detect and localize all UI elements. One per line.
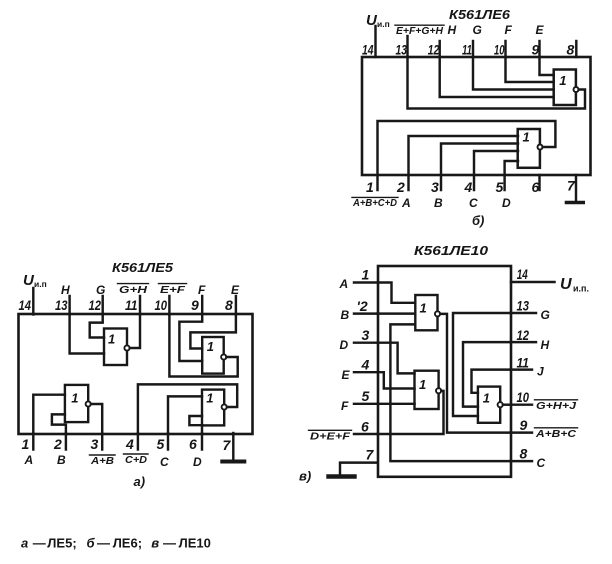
wire B: pin 3 to gate U1.2 input 2 xyxy=(441,144,518,191)
wire gate U3.3 output to pin 10 xyxy=(503,403,511,405)
label title K561LE5 xyxy=(112,261,174,275)
svg-text:3: 3 xyxy=(362,327,370,343)
net label F (pin 10, diagram b) xyxy=(505,23,513,37)
label v) subfigure xyxy=(299,469,311,484)
svg-text:U: U xyxy=(560,276,572,293)
svg-text:1: 1 xyxy=(108,332,115,347)
svg-text:3: 3 xyxy=(431,179,439,195)
pin 9 stub (diagram b) xyxy=(532,41,540,58)
svg-text:A: A xyxy=(401,196,411,210)
svg-text:11: 11 xyxy=(462,42,472,58)
svg-text:D: D xyxy=(193,455,202,469)
wire A: pin 2 to gate U1.2 input 1 xyxy=(409,136,519,190)
gate U1.2 4-input NOR (diagram b, bottom) xyxy=(518,129,543,168)
pin 6 number xyxy=(532,179,540,195)
wire H: pin 12 to gate U3.3 input 2 xyxy=(463,342,511,407)
svg-text:1: 1 xyxy=(207,339,214,354)
pin 13 stub (diagram v) xyxy=(511,298,537,314)
label a) subfigure xyxy=(134,474,146,489)
svg-text:и.п.: и.п. xyxy=(573,284,589,294)
wire C: pin 8 across to gate U3.1 input 3 xyxy=(390,324,510,461)
pin 9 stub (diagram a) xyxy=(191,296,202,315)
net label A (pin 2, diagram b) xyxy=(401,196,411,210)
svg-text:б: б xyxy=(87,536,96,551)
net label C (pin 4, diagram b) xyxy=(469,196,478,210)
net label A+B (pin 3 output, diagram a) xyxy=(90,455,116,467)
pin 6 stub (diagram a) xyxy=(189,433,202,452)
wire A: pin 1 jog to gate U3.1 input 1 xyxy=(378,283,415,303)
IC body DD3 (K561LE10) xyxy=(378,266,511,477)
gate U3.2 3-input NOR (diagram v, middle) xyxy=(415,371,442,409)
pin 5 stub (diagram a) xyxy=(157,433,169,452)
net label A+B+C+D (pin 1 output, diagram b) xyxy=(352,197,398,209)
caption: a - LE5; b - LE6; v - LE10 xyxy=(21,536,211,551)
IC body DD2 (K561LE5) xyxy=(19,314,253,434)
gate U1.1 4-input NOR (diagram b, top) xyxy=(554,70,579,106)
pin 10 stub (diagram b) xyxy=(494,41,506,58)
svg-text:14: 14 xyxy=(362,42,374,58)
net label G (pin 11, diagram b) xyxy=(473,23,482,37)
pin 2 number xyxy=(396,179,405,195)
pin 5 stub (diagram v) xyxy=(354,388,378,404)
label title K561LE10 xyxy=(414,244,488,258)
svg-text:D: D xyxy=(340,338,349,352)
node Vcc label U i.p (diagram b) xyxy=(366,12,390,29)
svg-text:A: A xyxy=(24,453,34,467)
svg-text:B: B xyxy=(341,308,350,322)
svg-text:и.п: и.п xyxy=(34,279,47,289)
net label H (pin 12, diagram v) xyxy=(541,338,550,352)
svg-text:7: 7 xyxy=(567,178,576,194)
wire J: pin 11 to gate U3.3 input 1 xyxy=(472,370,511,393)
pin 11 stub (diagram b) xyxy=(462,41,473,58)
svg-text:7: 7 xyxy=(223,437,232,453)
pin 7 number xyxy=(567,178,576,194)
net label D (pin 3, diagram v) xyxy=(340,338,349,352)
svg-text:G: G xyxy=(96,283,105,297)
gate U2.1 2-input NOR (diagram a, top left) xyxy=(104,329,130,366)
pin 9 stub (diagram v) xyxy=(511,417,533,433)
svg-text:К561ЛЕ6: К561ЛЕ6 xyxy=(449,8,511,22)
pin 3 number xyxy=(431,179,439,195)
svg-text:6: 6 xyxy=(189,436,197,452)
svg-text:'2: '2 xyxy=(357,298,368,314)
wire G: pin 12 jog to gate U2.1 input 1 xyxy=(90,315,104,338)
net label E+F+G+H (pin 13 output, diagram b) xyxy=(395,25,444,37)
wire C: pin 4 to gate U1.2 input 3 xyxy=(474,151,518,190)
svg-text:б): б) xyxy=(472,213,484,228)
svg-text:C: C xyxy=(469,196,478,210)
pin 8 stub (diagram a) xyxy=(225,296,236,315)
svg-text:A+B+C+D: A+B+C+D xyxy=(352,198,397,209)
pin 7 stub (ground, diagram v) xyxy=(340,447,378,475)
svg-text:1: 1 xyxy=(559,73,566,88)
net label C (pin 8, diagram v) xyxy=(537,456,546,470)
svg-text:в: в xyxy=(151,536,159,551)
net label D+E+F (pin 6 output, diagram v) xyxy=(309,430,352,442)
net label D (pin 6, diagram a) xyxy=(193,455,202,469)
pin 7 stub (ground, diagram b) xyxy=(575,175,577,201)
svg-text:G+H+J: G+H+J xyxy=(536,401,577,412)
node Vcc label U i.p (diagram a) xyxy=(23,272,47,289)
wire E: pin 8 jog to gate U2.2 input 1 xyxy=(190,315,236,349)
svg-text:5: 5 xyxy=(157,436,165,452)
wire G: pin 13 to gate U3.3 input 3 xyxy=(453,313,511,416)
svg-text:9: 9 xyxy=(191,297,199,313)
wire gate U3.1 output to pin 9 xyxy=(440,314,510,433)
svg-text:B: B xyxy=(434,196,443,210)
pin 10 stub (diagram v) xyxy=(511,389,533,405)
svg-text:—: — xyxy=(97,536,110,551)
net label G (pin 12, diagram a) xyxy=(96,283,105,297)
svg-text:1: 1 xyxy=(22,436,30,452)
net label B (pin 2, diagram v) xyxy=(341,308,350,322)
svg-text:10: 10 xyxy=(155,297,168,313)
ground symbol (diagram v) xyxy=(329,474,355,478)
pin 13 stub (diagram a) xyxy=(55,296,70,315)
wire F: pin 10 to gate U1.1 input 2 xyxy=(506,57,554,82)
svg-text:9: 9 xyxy=(520,417,528,433)
svg-text:14: 14 xyxy=(19,297,32,313)
svg-text:13: 13 xyxy=(55,297,68,313)
svg-text:A+B: A+B xyxy=(90,456,114,467)
svg-text:G: G xyxy=(541,308,550,322)
svg-text:J: J xyxy=(537,365,544,379)
svg-text:—: — xyxy=(163,536,176,551)
svg-text:5: 5 xyxy=(362,388,370,404)
pin 4 number xyxy=(464,179,473,195)
svg-text:14: 14 xyxy=(517,266,528,282)
svg-text:1: 1 xyxy=(206,391,213,406)
pin 14 stub (Vcc, diagram v) xyxy=(511,266,555,282)
svg-text:8: 8 xyxy=(520,446,528,462)
label title K561LE6 xyxy=(449,8,511,22)
svg-text:H: H xyxy=(541,338,550,352)
svg-text:К561ЛЕ5: К561ЛЕ5 xyxy=(112,261,174,275)
svg-text:E+F: E+F xyxy=(160,285,186,296)
svg-text:G: G xyxy=(473,23,482,37)
svg-text:10: 10 xyxy=(517,389,530,405)
gate U2.3 2-input NOR (diagram a, bottom left) xyxy=(65,385,91,422)
pin 11 stub (diagram v) xyxy=(511,355,533,371)
pin 7 stub (ground, diagram a) xyxy=(223,433,234,460)
svg-text:E+F+G+H: E+F+G+H xyxy=(396,26,444,37)
net label C+D (pin 4 output, diagram a) xyxy=(124,454,149,466)
svg-text:8: 8 xyxy=(225,297,233,313)
svg-text:H: H xyxy=(448,23,457,37)
svg-text:1: 1 xyxy=(420,301,427,316)
svg-text:C: C xyxy=(537,456,546,470)
svg-text:в): в) xyxy=(299,469,311,484)
net label H (pin 12, diagram b) xyxy=(448,23,457,37)
pin 8 stub (diagram v) xyxy=(511,446,533,462)
pin 4 stub (diagram v) xyxy=(354,357,378,373)
svg-text:4: 4 xyxy=(464,179,473,195)
svg-text:E: E xyxy=(342,368,351,382)
svg-text:A: A xyxy=(339,277,349,291)
gate U3.3 3-input NOR (diagram v, right) xyxy=(478,387,503,423)
wire gate U2.3 output to pin 3 xyxy=(91,404,102,433)
pin 13 stub (diagram b) xyxy=(396,36,408,58)
pin 5 number xyxy=(496,179,504,195)
pin 2 stub (diagram a) xyxy=(53,433,66,452)
net label E+F (pin 10 output, diagram a) xyxy=(159,284,187,296)
svg-text:G+H: G+H xyxy=(119,285,148,296)
pin 12 stub (diagram b) xyxy=(428,41,440,58)
net label G (pin 13, diagram v) xyxy=(541,308,550,322)
pin 10 stub (diagram a) xyxy=(155,296,170,315)
svg-text:11: 11 xyxy=(517,355,530,371)
wire C: pin 5 to gate U2.4 input 1 xyxy=(168,396,202,433)
net label E (pin 9, diagram b) xyxy=(536,23,545,37)
wire F: pin 5 to gate U3.2 input 3 xyxy=(378,403,415,405)
wire F: pin 9 jog to gate U2.2 input 2 xyxy=(179,315,202,362)
wire B: pin 2 jog to gate U2.3 input 2 xyxy=(52,414,66,433)
net label C (pin 5, diagram a) xyxy=(160,455,169,469)
wire gate U1.1 output to pin 13 xyxy=(408,57,586,109)
net label D (pin 5, diagram b) xyxy=(502,196,511,210)
svg-text:D: D xyxy=(502,196,511,210)
ground symbol (diagram b) xyxy=(566,201,583,204)
svg-text:ЛЕ10: ЛЕ10 xyxy=(179,536,211,551)
svg-text:а): а) xyxy=(134,474,146,489)
svg-text:B: B xyxy=(57,453,66,467)
svg-text:4: 4 xyxy=(125,436,134,452)
svg-text:1: 1 xyxy=(362,267,370,283)
pin 3 stub (diagram v) xyxy=(354,327,378,343)
pin 1 number xyxy=(366,179,374,195)
node Vcc label U i.p (diagram v) xyxy=(560,276,589,294)
gate U2.2 2-input NOR (diagram a, top right) xyxy=(202,337,226,374)
svg-text:C+D: C+D xyxy=(125,455,147,466)
net label B (pin 3, diagram b) xyxy=(434,196,443,210)
net label H (pin 13, diagram a) xyxy=(61,283,70,297)
pin 3 stub (diagram a) xyxy=(91,433,103,452)
ground symbol (diagram a) xyxy=(222,460,244,464)
pin 12 stub (diagram v) xyxy=(511,327,537,343)
pin 12 stub (diagram a) xyxy=(89,296,103,315)
svg-text:а: а xyxy=(21,536,28,551)
pin 2 stub (diagram v) xyxy=(354,298,378,314)
svg-text:C: C xyxy=(160,455,169,469)
svg-text:1: 1 xyxy=(419,377,426,392)
wire D: pin 3 jog to gate U3.2 input 1 xyxy=(378,343,415,374)
wire gate U2.1 output to pin 11 xyxy=(130,315,140,349)
svg-text:и.п: и.п xyxy=(377,19,390,29)
pin 1 stub (diagram a) xyxy=(22,433,34,452)
svg-text:5: 5 xyxy=(496,179,504,195)
svg-text:12: 12 xyxy=(517,327,530,343)
pin 4 stub (diagram a) xyxy=(125,433,138,452)
svg-text:1: 1 xyxy=(71,391,78,406)
svg-text:7: 7 xyxy=(366,447,375,463)
pin 6 stub (diagram v) xyxy=(354,419,378,435)
label b) subfigure xyxy=(472,213,484,228)
pin 1 stub (diagram v) xyxy=(354,267,378,283)
wire E: pin 4 jog to gate U3.2 input 2 xyxy=(378,372,415,388)
svg-text:10: 10 xyxy=(494,42,505,58)
wire B: pin 2 to gate U3.1 input 2 xyxy=(378,312,416,314)
pin 14 stub (Vcc, diagram b) xyxy=(362,26,376,58)
net label G+H+J (pin 10 output, diagram v) xyxy=(535,400,578,412)
wire gate U2.4 output loop to pin 4 xyxy=(138,384,237,433)
wire A: pin 1 to gate U2.3 input 1 xyxy=(33,395,65,433)
wire gate U2.2 output loop to pin 10 xyxy=(169,315,237,377)
net label E (pin 4, diagram v) xyxy=(342,368,351,382)
wire D: pin 6 jog to gate U2.4 input 2 xyxy=(189,416,202,433)
pin 8 stub NC (diagram b) xyxy=(567,41,577,58)
gate U3.1 3-input NOR (diagram v, top) xyxy=(415,295,440,330)
svg-text:1: 1 xyxy=(483,391,490,406)
net label A+B+C (pin 9 output, diagram v) xyxy=(535,428,578,440)
svg-text:4: 4 xyxy=(361,357,370,373)
wire gate U3.2 output loop to pin 6 xyxy=(378,391,444,434)
svg-text:12: 12 xyxy=(428,42,440,58)
svg-text:11: 11 xyxy=(125,297,138,313)
svg-text:12: 12 xyxy=(89,297,102,313)
svg-text:6: 6 xyxy=(361,419,369,435)
svg-text:A+B+C: A+B+C xyxy=(535,429,577,440)
svg-text:3: 3 xyxy=(91,436,99,452)
wire gate U1.2 output to pin 1 xyxy=(378,121,556,190)
svg-text:9: 9 xyxy=(532,42,540,58)
svg-text:F: F xyxy=(505,23,513,37)
pin 6 stub NC (diagram b) xyxy=(538,175,540,190)
svg-text:1: 1 xyxy=(366,179,374,195)
wire E: pin 9 to gate U1.1 input 1 xyxy=(540,57,554,75)
svg-text:6: 6 xyxy=(532,179,540,195)
svg-text:—: — xyxy=(33,536,46,551)
gate U2.4 2-input NOR (diagram a, bottom right) xyxy=(202,390,227,426)
IC body DD1 (K561LE6) xyxy=(362,57,591,175)
svg-text:13: 13 xyxy=(396,42,408,58)
wire G: pin 11 to gate U1.1 input 3 xyxy=(473,57,554,90)
net label B (pin 2, diagram a) xyxy=(57,453,66,467)
net label J (pin 11, diagram v) xyxy=(537,365,544,379)
svg-text:2: 2 xyxy=(396,179,405,195)
svg-text:ЛЕ6;: ЛЕ6; xyxy=(113,536,142,551)
svg-text:8: 8 xyxy=(567,42,575,58)
wire H: pin 12 to gate U1.1 input 4 xyxy=(440,57,554,97)
net label F (pin 9, diagram a) xyxy=(198,283,206,297)
net label E (pin 8, diagram a) xyxy=(231,283,240,297)
svg-text:1: 1 xyxy=(523,130,530,145)
net label A (pin 1, diagram v) xyxy=(339,277,349,291)
svg-text:F: F xyxy=(341,399,349,413)
svg-text:13: 13 xyxy=(517,298,530,314)
svg-text:E: E xyxy=(536,23,545,37)
net label F (pin 5, diagram v) xyxy=(341,399,349,413)
svg-text:ЛЕ5;: ЛЕ5; xyxy=(47,536,76,551)
pin 11 stub (diagram a) xyxy=(125,296,140,315)
svg-text:К561ЛЕ10: К561ЛЕ10 xyxy=(414,244,488,258)
wire D: pin 5 to gate U1.2 input 4 xyxy=(505,161,518,190)
wire H: pin 13 to gate U2.1 input 2 xyxy=(70,315,104,354)
net label A (pin 1, diagram a) xyxy=(24,453,34,467)
svg-text:2: 2 xyxy=(53,436,62,452)
net label G+H (pin 11 output, diagram a) xyxy=(118,284,149,296)
svg-text:D+E+F: D+E+F xyxy=(310,432,351,443)
pin 14 stub (Vcc, diagram a) xyxy=(19,288,34,315)
